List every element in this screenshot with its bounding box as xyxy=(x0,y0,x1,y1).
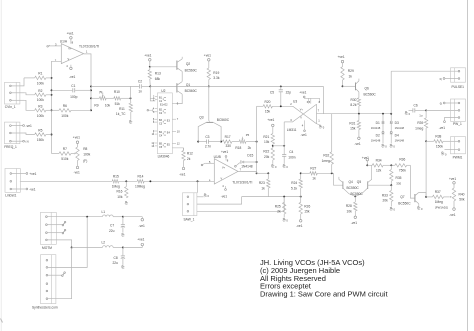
svg-text:PW_1: PW_1 xyxy=(453,122,462,126)
resistor R22 xyxy=(272,144,274,148)
svg-text:150k: 150k xyxy=(37,138,44,142)
svg-text:+ve1: +ve1 xyxy=(29,172,36,176)
Q1 collector to U2 pin 3 xyxy=(176,94,182,104)
capacitor C5 xyxy=(280,85,282,87)
svg-text:R11: R11 xyxy=(119,107,125,111)
diode D1 1N4148 xyxy=(382,113,384,115)
svg-text:R22: R22 xyxy=(263,150,269,154)
svg-text:R25: R25 xyxy=(275,204,281,208)
R31 to -ve1 xyxy=(358,130,360,138)
ground below C8 xyxy=(122,266,123,268)
resistor R1 xyxy=(24,77,35,79)
U3 output row xyxy=(317,113,392,115)
svg-text:Q3: Q3 xyxy=(199,116,204,120)
transistor Q6 xyxy=(343,85,356,87)
svg-text:2k: 2k xyxy=(187,157,191,161)
svg-text:R1: R1 xyxy=(38,71,42,75)
svg-text:R3: R3 xyxy=(38,105,42,109)
svg-text:C2: C2 xyxy=(138,79,142,83)
svg-text:0(: 0( xyxy=(440,101,442,105)
svg-text:15k: 15k xyxy=(304,210,310,214)
U2 pins 12-14 joint xyxy=(152,143,154,146)
svg-text:R32: R32 xyxy=(323,154,329,158)
Q5 base wire xyxy=(368,184,392,186)
svg-text:L1: L1 xyxy=(102,210,106,214)
svg-text:2k: 2k xyxy=(248,146,252,150)
svg-text:D3: D3 xyxy=(395,121,399,125)
U2 left pins xyxy=(155,96,158,98)
transistor Q1 xyxy=(176,83,178,92)
wire R39 node to R37 row xyxy=(425,141,427,197)
svg-text:1Meg: 1Meg xyxy=(112,185,120,189)
wire main row to R14 xyxy=(20,180,112,182)
svg-text:BC560C: BC560C xyxy=(217,118,230,122)
U3 pin 4 -ve1 xyxy=(304,120,306,129)
connector PULSE1 xyxy=(451,68,466,82)
resistor R25 xyxy=(283,202,286,214)
svg-text:C5: C5 xyxy=(270,91,274,95)
svg-text:+ve1: +ve1 xyxy=(338,55,345,59)
resistor R37 1Meg [PW1ADJ] xyxy=(426,196,432,198)
svg-text:D1: D1 xyxy=(376,121,380,125)
U2 right pins xyxy=(172,103,176,105)
R12 to -ve1 xyxy=(183,161,185,168)
svg-text:C8: C8 xyxy=(114,256,118,260)
resistor R6 xyxy=(52,109,60,111)
U1/A inverting input wire xyxy=(52,61,62,78)
svg-text:R23: R23 xyxy=(259,181,265,185)
connector LinDet1 xyxy=(5,169,20,193)
resistor R15 1Meg xyxy=(112,180,119,183)
svg-text:10Meg: 10Meg xyxy=(135,185,145,189)
svg-text:TL072/30/1/TI: TL072/30/1/TI xyxy=(232,180,252,184)
resistor R35 330 xyxy=(390,170,393,182)
wire Q1 base to R19 node xyxy=(177,85,209,87)
svg-text:V+: V+ xyxy=(68,48,72,51)
svg-text:750k: 750k xyxy=(399,169,406,173)
svg-text:PULSE1: PULSE1 xyxy=(452,85,465,89)
riser C2 to R10 node xyxy=(130,86,132,98)
svg-text:15k: 15k xyxy=(350,127,356,131)
connector MOTM xyxy=(40,212,56,244)
capacitor C4 xyxy=(273,145,284,147)
ground below R16 xyxy=(126,201,127,203)
svg-text:+ve1: +ve1 xyxy=(221,150,228,154)
resistor R36 750k xyxy=(395,164,407,167)
svg-text:-ve1: -ve1 xyxy=(439,126,446,130)
svg-text:100k: 100k xyxy=(83,153,90,157)
svg-text:1N4148: 1N4148 xyxy=(371,139,381,143)
SAW_1 pin1 ground xyxy=(197,196,204,198)
ground below C4 xyxy=(283,165,284,167)
svg-text:R37: R37 xyxy=(435,190,441,194)
Synth pin6 wire riser xyxy=(48,248,72,299)
svg-text:C1: C1 xyxy=(71,84,75,88)
wire L2 row xyxy=(71,247,73,249)
op-amp U1/A xyxy=(61,44,83,64)
transistor Q2 xyxy=(150,66,177,68)
svg-text:SAW_1: SAW_1 xyxy=(184,217,195,221)
svg-text:R17: R17 xyxy=(225,135,231,139)
wire PULSE1 riser xyxy=(390,113,392,115)
resistor R17 xyxy=(222,140,232,143)
Q6 emitter stub xyxy=(358,79,360,81)
svg-text:-ve1: -ve1 xyxy=(69,75,76,79)
transistor Q3 cascode xyxy=(208,86,210,120)
capacitor C7 22u xyxy=(121,224,125,226)
svg-text:D4: D4 xyxy=(395,133,399,137)
svg-text:R36: R36 xyxy=(399,158,405,162)
node: feedback bus xyxy=(90,86,92,110)
svg-text:1k: 1k xyxy=(312,177,316,181)
ground below C7 xyxy=(122,233,123,235)
comparator feedback riser xyxy=(322,86,324,113)
svg-text:12k: 12k xyxy=(376,169,382,173)
resistor R2 xyxy=(24,93,35,95)
trimmer P5 / resistor R18 xyxy=(239,140,246,143)
svg-text:C4: C4 xyxy=(289,150,293,154)
svg-text:C6: C6 xyxy=(414,103,418,107)
connector SAW_1 xyxy=(183,193,197,216)
U1/A non-inverting input wire with net flag xyxy=(47,46,49,48)
MOTM pin4 wire xyxy=(47,240,71,248)
trimmer R9 with net flag [5] xyxy=(91,97,99,99)
svg-text:R2: R2 xyxy=(38,89,42,93)
connector PWM1 xyxy=(451,137,466,154)
svg-text:U3: U3 xyxy=(293,100,297,104)
resistor R10 xyxy=(106,97,114,99)
MOTM pin3 bead xyxy=(47,232,62,234)
svg-text:2k: 2k xyxy=(277,210,281,214)
PWM1 pin2 ground xyxy=(445,149,459,151)
wire C4 node to U3 pin3 xyxy=(283,122,285,146)
LinDet1 +ve1 pin xyxy=(12,173,26,175)
resistor R24 xyxy=(299,179,302,188)
diode D15 1N4148 xyxy=(235,165,237,167)
diode D3 1N4148 xyxy=(390,114,392,121)
svg-text:TL072/30/1/TI: TL072/30/1/TI xyxy=(79,45,99,49)
resistor R20 xyxy=(257,105,264,107)
svg-text:Q5: Q5 xyxy=(357,180,362,184)
wire R13 node to U2 pins 2,1 xyxy=(150,86,155,98)
R26 to -ve1 xyxy=(300,214,302,220)
svg-text:20k: 20k xyxy=(383,199,389,203)
svg-text:R26: R26 xyxy=(304,204,310,208)
resistor R27 xyxy=(310,172,318,175)
svg-text:R20: R20 xyxy=(265,100,271,104)
IC U2 LM3046 box xyxy=(157,93,172,154)
svg-text:R15: R15 xyxy=(113,175,119,179)
ground below R11 xyxy=(130,121,131,123)
resistor R33 20k xyxy=(390,191,393,202)
transistor Q7 xyxy=(410,165,414,198)
svg-text:R38: R38 xyxy=(435,135,441,139)
Synth pin3 bead xyxy=(48,274,62,276)
transistor pair Q4 Q5 xyxy=(334,173,343,185)
resistor R38 100k xyxy=(426,140,434,142)
svg-text:Q6: Q6 xyxy=(365,87,370,91)
capacitor C8 22u xyxy=(121,255,125,257)
svg-text:-ve1: -ve1 xyxy=(26,124,33,128)
svg-text:3.3k: 3.3k xyxy=(213,76,220,80)
connector FREQ_1 xyxy=(5,122,20,144)
svg-text:100k: 100k xyxy=(37,114,44,118)
svg-text:-ve1: -ve1 xyxy=(301,133,308,137)
capacitor C2 xyxy=(139,84,141,88)
svg-text:Q2: Q2 xyxy=(186,62,191,66)
FREQ_1 pin2 wire xyxy=(11,132,24,134)
svg-text:R5: R5 xyxy=(38,129,42,133)
connector CVIn_1 xyxy=(5,82,20,104)
wire row to R27 xyxy=(301,172,310,174)
svg-text:D15: D15 xyxy=(247,153,253,157)
svg-text:D2: D2 xyxy=(376,133,380,137)
svg-text:R14: R14 xyxy=(138,175,144,179)
svg-text:1meg: 1meg xyxy=(322,159,330,163)
svg-text:10k: 10k xyxy=(105,104,111,108)
svg-text:1meg: 1meg xyxy=(415,126,423,130)
svg-text:R29: R29 xyxy=(348,69,354,73)
svg-text:R7: R7 xyxy=(63,147,67,151)
U1/B +input net flag [5] xyxy=(201,164,203,166)
svg-text:1k_TC: 1k_TC xyxy=(116,112,126,116)
svg-text:BC550C: BC550C xyxy=(398,201,411,205)
svg-text:R40: R40 xyxy=(459,192,465,196)
svg-text:330: 330 xyxy=(225,144,231,148)
svg-text:15k: 15k xyxy=(265,109,271,113)
resistor R11 xyxy=(130,97,132,99)
svg-text:LM3046: LM3046 xyxy=(158,155,170,159)
svg-text:100k: 100k xyxy=(37,98,44,102)
resistor R23 xyxy=(257,172,269,174)
op-amp U1/A power -ve1 xyxy=(70,67,73,70)
node bus U1B output xyxy=(256,106,258,173)
svg-text:50k: 50k xyxy=(459,198,465,202)
svg-text:R10: R10 xyxy=(114,90,120,94)
svg-text:[5]: [5] xyxy=(99,90,102,94)
U2 pins 9-11 joint xyxy=(152,131,154,134)
svg-text:10k: 10k xyxy=(347,209,353,213)
resistor R30 xyxy=(357,98,360,106)
svg-text:1N4148: 1N4148 xyxy=(395,139,405,143)
svg-text:+ve1: +ve1 xyxy=(449,177,456,181)
svg-text:R21: R21 xyxy=(263,135,269,139)
svg-text:+ve1: +ve1 xyxy=(137,237,144,241)
FREQ_1 pin3 flag xyxy=(11,140,22,142)
svg-text:R31: R31 xyxy=(349,121,355,125)
svg-text:22p: 22p xyxy=(286,91,292,95)
wire Q4 collector to R34 row xyxy=(366,161,368,166)
FREQ_1 pin1 -ve1 flag xyxy=(11,125,22,127)
svg-text:100k: 100k xyxy=(37,82,44,86)
svg-text:-ve1: -ve1 xyxy=(139,224,146,228)
svg-text:R12: R12 xyxy=(187,152,193,156)
svg-text:CVIn_1: CVIn_1 xyxy=(5,105,16,109)
svg-text:10k: 10k xyxy=(117,195,123,199)
svg-text:(-6: (-6 xyxy=(26,139,30,143)
svg-text:U2: U2 xyxy=(161,89,165,93)
U3 power rail +ve1 xyxy=(304,97,320,99)
svg-text:Q4: Q4 xyxy=(349,180,354,184)
svg-text:R27: R27 xyxy=(310,167,316,171)
diode D2 1N4148 xyxy=(382,131,384,133)
svg-text:R28: R28 xyxy=(346,204,352,208)
svg-text:L2: L2 xyxy=(102,241,106,245)
svg-text:R16: R16 xyxy=(117,190,123,194)
wire saw divider row xyxy=(242,196,301,198)
svg-text:P5: P5 xyxy=(246,133,250,137)
LinDet1 -ve1 pin xyxy=(12,188,26,190)
svg-text:BC550C: BC550C xyxy=(347,186,360,190)
wire C6 node to PW_1 xyxy=(425,109,427,111)
Synth pin2 wire riser xyxy=(48,217,87,268)
svg-text:150k: 150k xyxy=(436,144,443,148)
svg-text:R24: R24 xyxy=(291,181,297,185)
svg-text:R35: R35 xyxy=(396,176,402,180)
resistor R39 1meg xyxy=(424,118,427,128)
svg-text:R30: R30 xyxy=(351,98,357,102)
svg-text:330: 330 xyxy=(396,181,401,185)
svg-text:1N4148: 1N4148 xyxy=(241,164,253,168)
U2 pins 4-5 joint stub xyxy=(153,109,155,112)
svg-text:+ve1: +ve1 xyxy=(144,53,151,57)
svg-text:Q7: Q7 xyxy=(400,195,405,199)
svg-text:1N4148: 1N4148 xyxy=(371,126,381,130)
R12 wire from U2 bottom xyxy=(172,148,183,151)
svg-text:Drawing 1: Saw Core and PWM ci: Drawing 1: Saw Core and PWM circuit xyxy=(260,290,388,299)
wire L1 to -ve1 xyxy=(123,216,142,218)
svg-text:100k: 100k xyxy=(61,114,68,118)
svg-text:510k: 510k xyxy=(61,157,68,161)
diode D4 1N4148 xyxy=(390,131,392,133)
svg-text:V+: V+ xyxy=(222,167,226,170)
resistor R16 10k xyxy=(125,187,128,198)
ground below R22 xyxy=(272,160,274,164)
svg-text:1N4148: 1N4148 xyxy=(395,126,405,130)
PW_1 pin1 stub xyxy=(445,102,458,104)
ground below D2 xyxy=(382,144,383,146)
resistor R12 xyxy=(183,148,185,151)
svg-text:R34: R34 xyxy=(376,159,382,163)
page border frame xyxy=(0,0,2,331)
svg-text:E1+E2: E1+E2 xyxy=(160,104,168,107)
svg-text:BC550C: BC550C xyxy=(351,192,364,196)
svg-text:20k: 20k xyxy=(264,155,270,159)
resistor R28 xyxy=(354,202,357,211)
svg-text:(F): (F) xyxy=(83,159,87,163)
svg-text:100p: 100p xyxy=(70,95,77,99)
svg-text:R19: R19 xyxy=(213,71,219,75)
svg-text:MOTM: MOTM xyxy=(42,246,52,250)
R28 to -ve1 xyxy=(354,211,356,216)
ground below D4 xyxy=(390,144,391,146)
svg-text:R8: R8 xyxy=(83,147,87,151)
svg-text:10k: 10k xyxy=(264,140,270,144)
capacitor C3 xyxy=(198,141,206,143)
svg-text:-ve1: -ve1 xyxy=(221,194,228,198)
Q7 emitter ground xyxy=(418,204,420,206)
svg-text:22u: 22u xyxy=(113,261,119,265)
svg-text:LinDet1: LinDet1 xyxy=(5,194,16,198)
wire R35 node to R33 xyxy=(390,185,392,190)
U1/B output wire xyxy=(238,171,257,173)
Q2-Q1 link xyxy=(181,71,183,81)
svg-text:C7: C7 xyxy=(110,224,114,228)
R40 to -ve1 xyxy=(453,201,455,208)
svg-text:1k: 1k xyxy=(349,75,353,79)
MOTM pin1 wire xyxy=(47,216,102,218)
U3 pin 1 ground xyxy=(317,124,320,125)
svg-text:R13: R13 xyxy=(155,72,161,76)
node: left input bus xyxy=(51,78,53,154)
svg-text:-ve1: -ve1 xyxy=(449,213,456,217)
SAW_1 pin2 wire xyxy=(197,197,242,205)
svg-text:8.2k: 8.2k xyxy=(350,103,357,107)
svg-text:C3: C3 xyxy=(205,135,209,139)
svg-text:+ve1: +ve1 xyxy=(73,136,80,140)
svg-text:1n: 1n xyxy=(138,90,142,94)
Q6 collector to R30 xyxy=(358,92,360,98)
svg-text:BC560C: BC560C xyxy=(185,89,198,93)
svg-text:100n: 100n xyxy=(288,156,295,160)
svg-text:-ve1: -ve1 xyxy=(354,142,361,146)
resistor R3 xyxy=(24,100,35,110)
Q4 Q5 emitter join xyxy=(343,188,355,196)
wire R19 node to comparator rail xyxy=(209,85,324,87)
SAW_1 riser to main row xyxy=(197,181,199,193)
svg-text:U1/B: U1/B xyxy=(214,155,221,159)
resistor R7 xyxy=(52,153,60,155)
svg-text:+ve1: +ve1 xyxy=(204,53,211,57)
capacitor C6 with ground xyxy=(406,112,407,114)
wire Q1 base row xyxy=(150,85,176,87)
wire L2 to +ve1 xyxy=(123,247,142,249)
svg-text:LM311: LM311 xyxy=(287,128,297,132)
svg-text:5.1k: 5.1k xyxy=(291,186,298,190)
R8 to -ve1 xyxy=(77,161,79,167)
Q7 collector wire xyxy=(419,192,426,197)
wire C2 row xyxy=(91,85,139,87)
svg-text:68k: 68k xyxy=(155,77,161,81)
svg-text:1u: 1u xyxy=(419,113,423,117)
svg-text:-ve1: -ve1 xyxy=(74,170,81,174)
resistor R26 xyxy=(299,202,302,214)
svg-text:PWM1: PWM1 xyxy=(453,156,463,160)
svg-text:Synthesizers.com: Synthesizers.com xyxy=(32,306,58,310)
svg-text:1k: 1k xyxy=(261,186,265,190)
svg-text:-ve1: -ve1 xyxy=(179,172,186,176)
PW_1 pin3 to -ve1 xyxy=(445,118,459,121)
comparator U3 LM311 crossed symbol xyxy=(293,106,317,124)
svg-text:BC560C: BC560C xyxy=(364,92,377,96)
svg-text:[PW1ADJ]: [PW1ADJ] xyxy=(435,205,448,209)
MOTM pin2 bead xyxy=(47,224,62,226)
resistor R14 10Meg xyxy=(137,180,144,183)
svg-text:22u: 22u xyxy=(109,229,115,233)
svg-text:1Meg: 1Meg xyxy=(435,200,443,204)
svg-text:BC560C: BC560C xyxy=(185,69,198,73)
resistor R31 xyxy=(357,121,360,130)
svg-text:R18: R18 xyxy=(235,146,241,150)
svg-text:-ve1: -ve1 xyxy=(351,221,358,225)
svg-text:2.7n: 2.7n xyxy=(205,145,212,149)
connector PW_1 xyxy=(451,99,466,121)
svg-text:0(: 0( xyxy=(440,77,442,81)
svg-text:51k: 51k xyxy=(115,102,121,106)
capacitor C1 xyxy=(52,89,73,91)
ground below R25 xyxy=(283,214,285,218)
resistor R32 1meg xyxy=(331,114,333,152)
